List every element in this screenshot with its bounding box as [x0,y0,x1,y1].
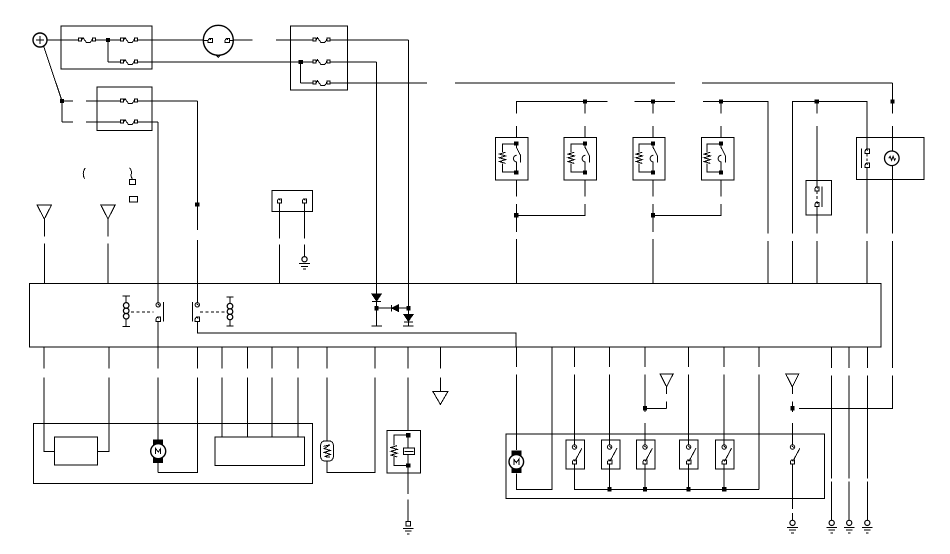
wire D3 stub [407,322,409,326]
terminal stub B [403,325,413,327]
wire ECU out x44 [44,347,55,451]
wire S12 to bus [723,464,725,489]
wire X1-2 to ground [304,244,306,256]
wire S10 to bus [644,464,646,489]
off-page arrow A1 [37,205,52,219]
wire arrow A5 stub [791,387,793,409]
wire pump return [516,347,552,489]
wire ECU out pump [515,347,517,450]
bracket glyph left [83,168,85,179]
ECU relay B coil [226,297,233,326]
wire lamp down [892,166,894,180]
node diode net B [406,306,410,310]
diode D2 [391,305,398,312]
wire node to FB2 row2 [62,121,73,123]
ECU / control unit U1 [30,283,882,347]
ground G6 [862,520,873,533]
wire door switch drop [816,102,818,189]
node pair1 join [514,213,518,217]
ignition switch SW1 [203,25,233,57]
gauge element rect 1 [54,437,97,465]
ECU relay A contacts [156,302,164,321]
wire branch to F3 [108,61,121,63]
wire relay B internal route [197,322,516,348]
battery B1 (+) [33,33,47,47]
wire seg4 left resume to ECU [791,241,793,283]
connector unit X1 [272,190,312,211]
wire ECU ground 3 [866,347,868,520]
wire bus B+ drop right [892,83,894,114]
wire arrow A2 resume [107,243,109,283]
indicator unit with lamp [856,138,924,180]
wire arrow A1 resume [43,243,45,283]
wire node to F7 [301,61,313,63]
wire F4 drop to ECU edge [196,240,198,283]
wire bus B+ segment 2 [455,82,675,84]
wire node to FB2 row1 [62,100,73,102]
wire relay bus segment 3 [703,102,768,234]
switch S10 [643,445,653,464]
diode D1 [372,294,381,301]
wire R4 down to join [653,180,721,215]
off-page arrow A3 [433,392,448,405]
node relay R4 feed [719,99,723,103]
ground G4 [826,520,837,533]
fuse F6 [313,38,330,43]
wire connector to FB3 row1 [276,39,313,41]
wire F4 drop to ECU [196,101,198,204]
fuel unit box [506,434,825,498]
instrument unit box [34,423,313,483]
wire S13 feed [792,409,794,445]
wire relay bus segment 2 [634,101,674,103]
node pair2 join [651,213,655,217]
wire F7 drop to ECU [376,62,378,283]
relay R2 (injector) [564,138,596,181]
ECU relay B actuator dash [200,311,225,313]
fuse box FB2 [97,87,152,131]
wire lamp column lower [799,376,893,409]
wire pair1 to ECU [515,239,517,283]
wire ECU out gauge 2 [246,347,248,437]
node bus junction 3 [687,487,691,491]
wire suppressor loop left [394,435,408,445]
ECU relay A actuator dash [131,311,154,313]
wire node down [61,101,63,122]
resistor RS1 [391,446,397,457]
small square note 1 [129,179,135,184]
fuse F4 [121,99,138,104]
wire D1 to node [376,301,378,308]
motor M1 [151,440,166,462]
switch S13 [790,445,800,464]
ECU relay B contacts [192,302,199,321]
diode D3 [404,315,413,322]
wire R4 feed drop [720,102,722,138]
wire lamp column down [892,180,894,234]
wire S7 down [866,168,868,234]
off-page arrow A4 [660,374,673,387]
relay R1 (injector) [495,138,527,181]
wire S6 down [816,207,818,234]
wire ECU out arrow A3 [439,347,441,391]
wire right drop resume [892,126,894,151]
wire ECU out x158 to motor [157,347,159,440]
wire pair2 to ECU [652,239,654,283]
pin X1-1 [277,199,281,203]
wire ECU out switch 2 [609,347,611,444]
wire bus B+ segment 3 [702,82,893,84]
node suppressor bottom [406,464,410,468]
gauge element rect 2 [215,437,304,465]
capacitor C1 [403,448,414,455]
wire M1 bottom [157,462,159,472]
wire ECU ground 2 [848,347,850,520]
wire R3 down [652,180,654,232]
wire diode branch 2 [407,283,409,308]
switch S12 [722,445,732,464]
ground G5 [844,520,855,533]
wire ECU out switch 4 [688,347,690,444]
wire battery to fuse box FB1 [47,39,79,41]
wire ECU out x197 motor return [158,347,197,472]
wire F5 drop to ECU [157,122,159,302]
wire row1 resume [86,100,121,102]
switch S11 [686,445,696,464]
wire R1 down [515,180,517,232]
node bus junction 2 [643,487,647,491]
wire relay bus segment 1 [516,102,607,138]
ground G2 [403,521,414,534]
door switch unit S6 [806,181,832,216]
wire F3 to fuse box FB3 [138,61,301,63]
fuse box FB1 [61,26,152,69]
node bus junction 1 [608,487,612,491]
switch S6 contacts [815,186,822,207]
wire ECU out sensor [326,347,328,441]
wire F5 output [138,121,159,123]
wire loop bottom [394,457,408,466]
wire S6 resume to ECU [816,241,818,283]
wire F6 output right [330,39,408,41]
switch unit S12 box [715,440,734,469]
node door switch feed [815,99,819,103]
motor M2 fuel pump [509,451,524,473]
wire X1-1 down [279,203,281,238]
wire row2 resume [86,121,121,123]
relay R4 (injector) [702,138,734,181]
wire ECU out gauge 3 [271,347,273,437]
lamp LP1 [885,151,900,166]
node arrow A4 tap [643,406,647,410]
wire battery diagonal feed [44,46,62,100]
wire node A stub [376,308,378,326]
wire FB1 branch down [107,40,109,62]
switch unit S10 box [636,440,655,469]
wire X1-1 resume to ECU [279,244,281,283]
fuse F1 [79,38,96,43]
wire diode branch 1 [376,283,378,294]
wire S7 feed inside [866,102,868,150]
wire ECU out suppressor [407,347,409,430]
wire ECU ground 1 [831,347,833,520]
node bus junction 4 [722,487,726,491]
wire arrow A2 to ECU [107,219,109,237]
wire relay B feed inside ECU [196,283,198,302]
bracket glyph right [130,168,133,180]
wire FB3 branch down [300,62,302,83]
switch unit S8 box [566,440,585,469]
wire arrow A1 to ECU [43,219,45,237]
wire F8 output right [330,82,427,84]
node FB1 junction [106,38,110,42]
wire cap link [407,435,409,465]
wire S9 to bus [609,464,611,489]
wire F4 output [138,100,198,102]
wire switch bus [575,464,760,489]
wire arrow A4 link [645,387,667,409]
terminal stub A [371,325,381,327]
wire diode net horizontal [377,307,409,309]
wire suppressor to ground [407,466,409,522]
fuse box FB3 [290,26,347,90]
wire lamp column resume [892,241,894,368]
wire ECU out x109 [98,347,109,451]
switch S7 contacts [861,149,869,168]
wire ECU out switch 3 [644,347,646,444]
node FB3 junction [299,60,303,64]
pin X1-2 [302,199,306,203]
fuse F8 [313,81,330,86]
off-page arrow A2 [101,205,116,219]
wire node B to D3 [407,308,409,314]
wire ECU out switch 1 [574,347,576,444]
wire relay A out [157,322,159,348]
wire R2 feed drop [584,102,586,138]
wire S11 to bus [688,464,690,489]
node splice battery feed [60,99,64,103]
fuse F5 [121,120,138,125]
wire sensor return [327,347,375,472]
wire bus return to ECU [758,347,760,489]
switch unit S9 box [601,440,620,469]
wire relay bus segment 4 [792,102,867,234]
switch unit S11 box [680,440,699,469]
fuse F2 [121,38,138,43]
fuse F3 [121,60,138,65]
wire ECU out gauge 4 [297,347,299,437]
sensor unit (coil) [321,441,334,461]
node diode net A [375,306,379,310]
node relay R2 feed [583,99,587,103]
wire bus3 corner resume to ECU [767,241,769,283]
wire F4 drop lower [196,205,198,230]
node relay R3 feed [651,99,655,103]
wire R3 feed drop [652,102,654,138]
switch S9 [607,445,617,464]
wire ECU out gauge 1 [221,347,223,437]
node switch S13 tap [790,406,794,410]
wire node to F2 [108,39,121,41]
splice on F4 drop [195,202,199,206]
wire F7 output right [330,61,376,63]
wire F2 to ignition switch [138,39,204,41]
wire ignition switch output [233,39,252,41]
switch S8 [572,445,582,464]
node suppressor top [406,433,410,437]
relay R3 (injector) [633,138,665,181]
small square note 2 [129,196,137,202]
node right drop [890,99,894,103]
wire S13 to ground [792,464,794,520]
wire branch to F8 [301,82,313,84]
wire ECU out switch 5 [723,347,725,444]
fuse F7 [313,60,330,65]
ECU relay A coil [123,296,130,327]
ground G1 [299,257,310,270]
wire F6 drop to ECU [407,40,409,283]
suppressor unit box [387,431,420,474]
off-page arrow A5 [786,374,799,387]
wire X1-2 down [304,203,306,238]
wire R2 down to join [516,180,585,215]
ground G3 [787,520,798,533]
wire S7 resume to ECU [866,241,868,283]
wire F1 to node [96,39,108,41]
